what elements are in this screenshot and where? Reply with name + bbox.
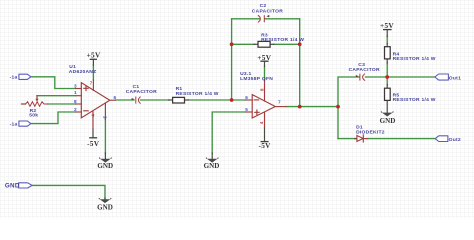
svg-text:GND: GND bbox=[5, 182, 20, 189]
svg-text:-1a: -1a bbox=[10, 75, 18, 81]
svg-text:Out2: Out2 bbox=[449, 137, 461, 143]
svg-text:50k: 50k bbox=[29, 113, 38, 119]
svg-text:LM358P QFN: LM358P QFN bbox=[240, 76, 273, 82]
svg-text:5: 5 bbox=[102, 116, 107, 119]
svg-text:+5V: +5V bbox=[257, 53, 271, 62]
svg-text:4: 4 bbox=[90, 114, 95, 117]
svg-text:3: 3 bbox=[74, 83, 77, 88]
svg-text:+5V: +5V bbox=[87, 51, 101, 60]
svg-text:C2: C2 bbox=[260, 3, 267, 9]
svg-text:RESISTOR 1/4 W: RESISTOR 1/4 W bbox=[261, 37, 304, 43]
svg-text:7: 7 bbox=[278, 100, 281, 105]
svg-text:RESISTOR 1/4 W: RESISTOR 1/4 W bbox=[176, 91, 219, 97]
svg-text:GND: GND bbox=[97, 204, 113, 212]
svg-text:CAPACITOR: CAPACITOR bbox=[126, 89, 157, 95]
svg-text:-5V: -5V bbox=[87, 139, 100, 148]
svg-text:1: 1 bbox=[74, 90, 77, 95]
svg-text:8: 8 bbox=[259, 88, 264, 91]
svg-text:RESISTOR 1/4 W: RESISTOR 1/4 W bbox=[393, 56, 436, 62]
svg-text:2: 2 bbox=[74, 107, 77, 112]
svg-text:6: 6 bbox=[114, 95, 117, 100]
svg-text:Out1: Out1 bbox=[449, 76, 461, 82]
svg-text:7: 7 bbox=[90, 80, 93, 85]
svg-text:-1a: -1a bbox=[10, 121, 18, 127]
svg-text:CAPACITOR: CAPACITOR bbox=[252, 8, 283, 14]
svg-text:CAPACITOR: CAPACITOR bbox=[349, 67, 380, 73]
svg-text:8: 8 bbox=[74, 99, 77, 104]
svg-text:5: 5 bbox=[245, 107, 248, 112]
svg-text:-5V: -5V bbox=[258, 141, 271, 150]
svg-text:GND: GND bbox=[97, 162, 113, 170]
svg-text:6: 6 bbox=[245, 95, 248, 100]
svg-text:+5V: +5V bbox=[380, 21, 394, 30]
svg-text:GND: GND bbox=[204, 162, 220, 170]
svg-text:4: 4 bbox=[259, 121, 264, 124]
svg-text:GND: GND bbox=[380, 117, 396, 125]
svg-text:DIODEKIT2: DIODEKIT2 bbox=[356, 129, 385, 135]
svg-text:RESISTOR 1/4 W: RESISTOR 1/4 W bbox=[393, 97, 436, 103]
svg-text:AD620ANZ: AD620ANZ bbox=[69, 69, 97, 75]
